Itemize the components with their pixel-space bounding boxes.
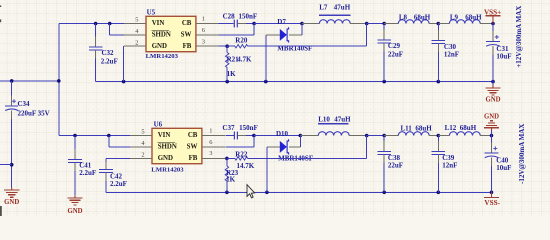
C31 top lead xyxy=(492,31,494,42)
D7 anode lead xyxy=(266,34,280,36)
wire D7 cathode riser xyxy=(301,24,303,35)
L10 right lead xyxy=(349,135,367,137)
C41 bottom lead xyxy=(74,163,76,172)
svg-text:68uH: 68uH xyxy=(460,124,477,132)
svg-text:2.2uF: 2.2uF xyxy=(110,180,127,188)
U5 pin 3 stub xyxy=(196,45,219,47)
svg-text:3: 3 xyxy=(202,38,205,45)
svg-text:14.7K: 14.7K xyxy=(237,162,255,170)
resistor R20 xyxy=(235,45,248,48)
wire C30 upper xyxy=(437,24,439,30)
svg-text:GND: GND xyxy=(4,199,19,206)
wire C31 upper xyxy=(492,24,494,32)
svg-text:12nF: 12nF xyxy=(442,161,457,169)
C39 bottom lead xyxy=(437,154,439,163)
inductor L7 xyxy=(319,20,350,24)
svg-text:VIN: VIN xyxy=(152,20,165,27)
wire FB2 pin run xyxy=(225,157,227,159)
C38 top lead xyxy=(383,141,385,152)
wire C39 upper xyxy=(437,136,439,141)
sheet border tick upper xyxy=(0,5,1,7)
wire C30 lower xyxy=(437,52,439,82)
capacitor C37 xyxy=(234,132,237,140)
wire C38 lower xyxy=(383,163,385,192)
wire FB2 to R22 xyxy=(227,157,235,159)
wire D7 anode drop xyxy=(265,35,267,82)
svg-text:L7: L7 xyxy=(319,4,328,12)
junction rail/R21 xyxy=(225,80,229,84)
svg-text:68uH: 68uH xyxy=(414,14,431,22)
C34 bottom lead xyxy=(11,110,13,119)
svg-text:6: 6 xyxy=(202,27,205,34)
C32 top lead xyxy=(95,36,97,47)
L8 right lead xyxy=(429,23,438,25)
L10 label underline xyxy=(318,123,348,125)
svg-text:1K: 1K xyxy=(226,176,236,184)
svg-text:L10: L10 xyxy=(318,116,330,124)
D10 cathode lead xyxy=(289,146,300,148)
wire FB pin run xyxy=(219,45,228,47)
svg-text:LMR14203: LMR14203 xyxy=(146,53,179,60)
capacitor C39 xyxy=(432,151,446,154)
diode D7 xyxy=(280,27,289,42)
capacitor C28 xyxy=(234,20,237,28)
wire U6 GND run xyxy=(106,157,130,159)
C34 plus sign xyxy=(12,99,16,103)
wire C42 lower xyxy=(105,181,107,192)
svg-text:SW: SW xyxy=(187,144,198,151)
wire C40 upper xyxy=(491,136,493,143)
L7 right lead xyxy=(350,23,367,25)
wire VSS+ stem xyxy=(492,16,494,24)
sheet border tick lower xyxy=(0,19,1,22)
svg-text:GND: GND xyxy=(158,155,173,162)
wire C28 to SW node xyxy=(246,23,254,25)
wire R20 to output sense xyxy=(248,45,367,47)
junction SHDN2 tap xyxy=(107,134,111,138)
wire C42 upper xyxy=(105,158,107,161)
wire C34 branch upper xyxy=(11,81,13,96)
wire C29 lower xyxy=(383,52,385,82)
resistor R22 xyxy=(235,157,248,160)
svg-text:150nF: 150nF xyxy=(239,12,258,20)
C39 top lead xyxy=(437,141,439,152)
svg-text:22uF: 22uF xyxy=(388,161,403,169)
L7 label underline xyxy=(319,14,350,16)
svg-text:L12: L12 xyxy=(445,124,457,132)
svg-text:1K: 1K xyxy=(227,70,237,78)
C29 top lead xyxy=(383,30,385,41)
svg-text:GND: GND xyxy=(152,43,167,50)
wire bottom GND rail xyxy=(106,191,492,193)
svg-text:6: 6 xyxy=(209,139,212,146)
inductor L9 xyxy=(449,20,480,24)
svg-text:R22: R22 xyxy=(235,150,248,158)
svg-text:VIN: VIN xyxy=(158,132,171,139)
inductor L11 xyxy=(398,132,429,136)
svg-text:L9: L9 xyxy=(450,14,459,22)
svg-text:3: 3 xyxy=(209,150,212,157)
wire L10 out to C38 xyxy=(367,135,385,137)
resistor R23 xyxy=(225,166,228,181)
capacitor C40 xyxy=(485,153,499,158)
junction SW/CB node xyxy=(252,22,256,26)
svg-text:2: 2 xyxy=(135,39,138,46)
U6 pin 5 stub xyxy=(130,135,152,137)
junction rail/C30 xyxy=(437,80,441,84)
capacitor C38 xyxy=(377,151,391,154)
op-amp U5 body (LMR14203 regulator) xyxy=(146,16,196,51)
wire L7 out to C29 xyxy=(367,23,385,25)
wire CB2 to C37 xyxy=(225,135,234,137)
svg-text:C34: C34 xyxy=(18,100,31,108)
wire input return stub xyxy=(0,164,12,166)
svg-text:12nF: 12nF xyxy=(444,50,459,58)
wire GND2 stem xyxy=(491,131,493,136)
wire SW node to D7 node xyxy=(254,23,302,25)
svg-text:R20: R20 xyxy=(235,37,248,45)
junction C34 branch xyxy=(10,79,14,83)
svg-text:SHDN: SHDN xyxy=(158,144,177,151)
wire C31 lower xyxy=(492,55,494,82)
C31 bottom lead xyxy=(492,46,494,55)
C31 plus sign xyxy=(495,35,499,39)
U5 pin 6 stub xyxy=(196,34,219,36)
wire R22 to output sense xyxy=(248,157,367,159)
junction rail2/C39 xyxy=(437,191,441,195)
junction rail/U5-GND xyxy=(122,80,126,84)
svg-text:D10: D10 xyxy=(276,130,289,138)
power port VSS- xyxy=(484,197,499,199)
capacitor C34 xyxy=(5,106,18,111)
svg-text:U5: U5 xyxy=(147,8,156,16)
svg-text:FB: FB xyxy=(189,155,198,162)
C42 top lead xyxy=(105,161,107,169)
svg-text:C37: C37 xyxy=(222,124,235,132)
svg-text:47uH: 47uH xyxy=(334,4,351,12)
C42 bottom lead xyxy=(105,173,107,182)
wire input feed top xyxy=(0,80,59,82)
capacitor C32 xyxy=(89,47,103,50)
svg-text:2.2uF: 2.2uF xyxy=(101,57,118,65)
U6 pin 1 stub xyxy=(202,135,225,137)
wire top GND rail xyxy=(96,81,493,83)
wire FB to R20 xyxy=(227,45,235,47)
power port VSS+ xyxy=(486,15,501,17)
C30 bottom lead xyxy=(437,43,439,52)
wire SHDN2 horizontal xyxy=(109,146,130,148)
mouse cursor xyxy=(247,185,255,198)
junction input return xyxy=(10,163,14,167)
C41 top lead xyxy=(74,149,76,160)
C32 bottom lead xyxy=(95,50,97,59)
wire CB to C28 xyxy=(219,23,234,25)
C34 top lead xyxy=(11,95,13,106)
wire SHDN horizontal xyxy=(110,34,124,36)
inductor L8 xyxy=(398,20,429,24)
svg-text:CB: CB xyxy=(182,20,192,27)
svg-text:VSS+: VSS+ xyxy=(484,9,501,17)
wire SW riser xyxy=(253,24,255,35)
U6 pin 2 stub xyxy=(130,157,152,159)
junction rail/C31-GND xyxy=(491,80,495,84)
ground top-right GND xyxy=(485,85,500,95)
svg-text:22uF: 22uF xyxy=(388,50,403,58)
wire FB2 to R23 xyxy=(226,158,228,166)
wire SW2 node to D10 node xyxy=(254,135,300,137)
junction D7 cathode riser xyxy=(300,22,304,26)
wire VSS- stem xyxy=(491,192,493,197)
svg-text:150nF: 150nF xyxy=(239,124,258,132)
junction VSS+ node xyxy=(491,22,495,26)
wire D10 cathode riser xyxy=(299,136,301,147)
svg-text:L11: L11 xyxy=(401,124,413,132)
wire C37 to SW2 node xyxy=(246,135,254,137)
svg-text:220uF 35V: 220uF 35V xyxy=(18,110,50,118)
junction FB2 divider xyxy=(225,157,229,161)
svg-text:10uF: 10uF xyxy=(496,164,511,172)
C38 bottom lead xyxy=(383,154,385,163)
svg-text:2.2uF: 2.2uF xyxy=(79,169,96,177)
junction C32 tap xyxy=(94,22,98,26)
svg-text:+12V@300mA MAX: +12V@300mA MAX xyxy=(515,6,523,68)
op-amp U6 body (LMR14203 regulator) xyxy=(152,128,202,163)
svg-text:U6: U6 xyxy=(154,120,163,128)
junction FB divider xyxy=(225,44,229,48)
svg-text:68uH: 68uH xyxy=(415,124,432,132)
capacitor C41 xyxy=(68,160,82,163)
inductor L12 xyxy=(449,132,480,136)
svg-text:VSS-: VSS- xyxy=(484,199,500,207)
wire C40 lower xyxy=(491,166,493,192)
svg-text:GND: GND xyxy=(484,113,499,120)
C40 top lead xyxy=(491,143,493,154)
svg-text:FB: FB xyxy=(183,43,192,50)
U5 pin 1 stub xyxy=(196,23,219,25)
wire SW pin run xyxy=(219,34,255,36)
wire input riser xyxy=(58,24,60,136)
svg-text:C29: C29 xyxy=(388,42,401,50)
svg-text:5: 5 xyxy=(135,17,138,24)
svg-text:LMR14203: LMR14203 xyxy=(151,167,184,174)
inductor L10 xyxy=(318,132,349,136)
svg-text:10uF: 10uF xyxy=(496,53,511,61)
L10 left lead xyxy=(300,135,318,137)
ground bottom-right GND xyxy=(484,121,499,131)
L12 right lead xyxy=(480,135,491,137)
wire rail to GND xyxy=(492,82,494,86)
junction GND2 node xyxy=(490,134,494,138)
capacitor C42 xyxy=(99,170,113,173)
junction SHDN tap xyxy=(108,22,112,26)
wire SW2 pin run xyxy=(225,146,254,148)
junction input feed/riser xyxy=(57,79,61,83)
svg-text:D7: D7 xyxy=(277,18,286,26)
svg-text:CB: CB xyxy=(188,132,198,139)
wire D10 anode drop xyxy=(266,147,268,192)
svg-text:SW: SW xyxy=(181,32,192,39)
svg-text:47uH: 47uH xyxy=(334,116,351,124)
ground C41 GND xyxy=(67,195,82,205)
L9 left lead xyxy=(438,23,449,25)
wire FB to R21 xyxy=(226,46,228,52)
wire C29 upper xyxy=(383,24,385,30)
wire SW2 riser xyxy=(253,136,255,147)
svg-text:C32: C32 xyxy=(102,49,115,57)
wire C32 upper xyxy=(95,24,97,37)
wire VIN feed top xyxy=(59,23,124,25)
capacitor C30 xyxy=(432,40,446,43)
svg-text:1: 1 xyxy=(202,16,205,23)
svg-text:L8: L8 xyxy=(399,14,408,22)
wire C39 lower xyxy=(437,163,439,192)
C40 bottom lead xyxy=(491,158,493,167)
wire C38 upper xyxy=(383,136,385,141)
junction L7 out / FB sense xyxy=(365,22,369,26)
diode D10 xyxy=(280,139,289,154)
junction rail2/C38 xyxy=(382,191,386,195)
capacitor C29 xyxy=(377,40,391,43)
svg-text:4.7K: 4.7K xyxy=(237,55,252,63)
svg-text:2: 2 xyxy=(141,151,144,158)
sheet border corner mark xyxy=(0,206,2,216)
junction rail2/D10 xyxy=(265,191,269,195)
U6 pin 3 stub xyxy=(202,157,225,159)
L12 left lead xyxy=(438,135,449,137)
wire VIN feed bottom xyxy=(59,135,130,137)
junction C38 tap xyxy=(382,134,386,138)
U6 pin 4 stub xyxy=(130,146,152,148)
svg-text:1: 1 xyxy=(209,128,212,135)
ground input GND xyxy=(4,187,19,197)
C37 right lead xyxy=(238,135,246,137)
junction C41 tap xyxy=(73,134,77,138)
junction SW2/CB2 node xyxy=(252,134,256,138)
wire C41 lower xyxy=(74,171,76,195)
junction C39 tap xyxy=(437,134,441,138)
U6 pin 6 stub xyxy=(202,146,225,148)
junction rail/C29 xyxy=(382,80,386,84)
wire C32 lower xyxy=(95,58,97,81)
junction rail/D7 xyxy=(264,80,268,84)
svg-text:68uH: 68uH xyxy=(465,14,482,22)
junction L10 out / FB2 sense xyxy=(365,134,369,138)
D7 cathode lead xyxy=(289,34,302,36)
svg-text:GND: GND xyxy=(67,208,82,215)
U5 pin 4 stub xyxy=(124,34,146,36)
U5 pin 2 stub xyxy=(124,45,146,47)
L8 left lead xyxy=(384,23,398,25)
capacitor C31 xyxy=(486,42,500,47)
wire FB2 sense riser xyxy=(366,136,368,159)
wire R23 to rail xyxy=(226,181,228,192)
svg-text:-12V@300mA MAX: -12V@300mA MAX xyxy=(518,124,526,184)
C29 bottom lead xyxy=(383,43,385,52)
svg-text:5: 5 xyxy=(141,129,144,136)
svg-text:C28: C28 xyxy=(223,12,236,20)
wire SHDN drop xyxy=(109,24,111,35)
junction rail2/R23 xyxy=(225,191,229,195)
junction rail2/C40-VSS- xyxy=(490,191,494,195)
junction D10 cathode riser xyxy=(299,134,303,138)
junction C29 tap xyxy=(382,22,386,26)
resistor R21 xyxy=(226,53,229,68)
svg-text:GND: GND xyxy=(485,97,500,104)
wire C41 upper xyxy=(74,136,76,150)
D10 anode lead xyxy=(267,146,280,148)
L11 right lead xyxy=(429,135,438,137)
wire FB sense riser xyxy=(366,24,368,47)
svg-text:SHDN: SHDN xyxy=(152,32,171,39)
wire C34 to GND xyxy=(11,119,13,187)
wire SHDN2 drop xyxy=(108,136,110,147)
L9 right lead xyxy=(480,23,493,25)
C28 right lead xyxy=(238,23,247,25)
C30 top lead xyxy=(437,30,439,41)
wire U5 GND drop xyxy=(123,46,125,81)
L7 left lead xyxy=(302,23,319,25)
junction C30 tap xyxy=(437,22,441,26)
U5 pin 5 stub xyxy=(124,23,146,25)
wire R21 to rail xyxy=(226,68,228,82)
L11 left lead xyxy=(384,135,398,137)
C40 plus sign xyxy=(493,146,497,150)
